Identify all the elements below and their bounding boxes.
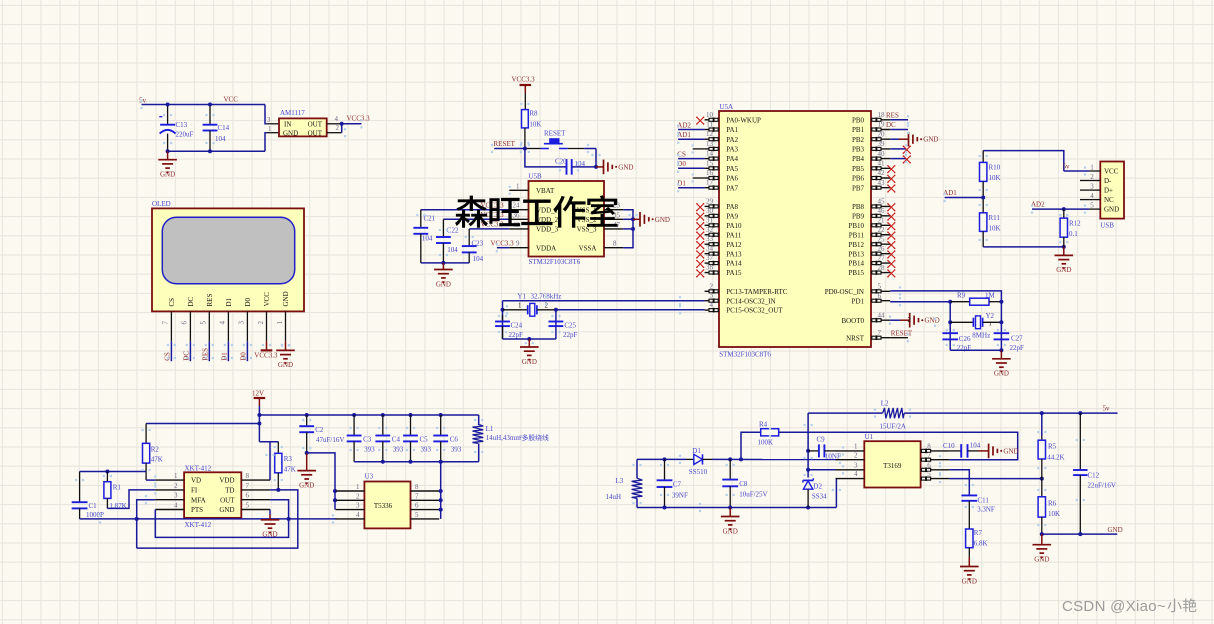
svg-text:VCC3.3: VCC3.3	[254, 352, 278, 360]
svg-text:PA5: PA5	[726, 165, 738, 173]
svg-text:GND: GND	[1104, 206, 1119, 214]
svg-text:CS: CS	[168, 298, 176, 307]
svg-text:5v: 5v	[1103, 404, 1111, 412]
svg-text:5v: 5v	[1063, 163, 1071, 171]
svg-text:GND: GND	[299, 481, 314, 489]
svg-text:PB14: PB14	[848, 260, 864, 268]
svg-text:41: 41	[878, 160, 886, 168]
svg-text:7: 7	[246, 482, 250, 490]
svg-text:C12: C12	[1088, 471, 1100, 479]
svg-text:104: 104	[970, 442, 981, 450]
svg-text:32: 32	[706, 226, 714, 234]
svg-text:6: 6	[927, 461, 931, 469]
svg-text:AD2: AD2	[677, 121, 691, 129]
svg-text:PB10: PB10	[848, 222, 864, 230]
svg-text:3: 3	[238, 321, 246, 325]
svg-text:NRST: NRST	[846, 334, 865, 342]
svg-text:10K: 10K	[989, 224, 1001, 232]
svg-text:RES: RES	[206, 294, 214, 307]
svg-text:1000P: 1000P	[86, 511, 104, 519]
svg-text:8: 8	[613, 240, 617, 248]
svg-text:R3: R3	[284, 455, 293, 463]
svg-text:40: 40	[878, 150, 886, 158]
svg-text:TD: TD	[225, 487, 234, 495]
svg-text:GND: GND	[1034, 556, 1049, 564]
svg-text:R12: R12	[1069, 220, 1081, 228]
svg-text:42: 42	[878, 169, 886, 177]
svg-text:RESET: RESET	[494, 140, 516, 148]
svg-text:USB: USB	[1100, 221, 1114, 229]
svg-text:43: 43	[878, 179, 886, 187]
svg-text:22: 22	[878, 226, 886, 234]
svg-text:AD2: AD2	[1031, 201, 1045, 209]
svg-text:VCC: VCC	[263, 292, 271, 307]
svg-text:2: 2	[710, 282, 714, 290]
svg-text:GND: GND	[1003, 447, 1018, 455]
svg-text:4: 4	[854, 470, 858, 478]
svg-text:2: 2	[257, 321, 265, 325]
svg-text:9: 9	[516, 240, 520, 248]
svg-text:DC: DC	[182, 351, 190, 361]
svg-text:C3: C3	[363, 435, 372, 443]
svg-text:CS: CS	[163, 352, 171, 361]
svg-text:24: 24	[513, 202, 521, 210]
svg-text:44: 44	[878, 311, 886, 319]
svg-text:PC15-OSC32_OUT: PC15-OSC32_OUT	[726, 307, 783, 315]
svg-text:D-: D-	[1104, 177, 1112, 185]
svg-text:PA1: PA1	[726, 126, 738, 134]
svg-text:C11: C11	[978, 496, 990, 504]
svg-text:GND: GND	[1108, 526, 1123, 534]
svg-text:AM1117: AM1117	[280, 109, 305, 117]
svg-text:C8: C8	[739, 480, 748, 488]
svg-text:OUT: OUT	[220, 496, 235, 504]
svg-text:2: 2	[1090, 173, 1094, 181]
svg-text:C7: C7	[673, 481, 682, 489]
svg-text:PB15: PB15	[848, 269, 864, 277]
svg-text:GND: GND	[994, 370, 1009, 378]
svg-text:Y1: Y1	[517, 293, 526, 301]
svg-text:8: 8	[246, 472, 250, 480]
svg-text:22pF: 22pF	[509, 331, 524, 339]
svg-text:GND: GND	[282, 291, 290, 306]
svg-text:44.2K: 44.2K	[1047, 453, 1064, 461]
svg-text:GND: GND	[923, 136, 938, 144]
svg-text:RESET: RESET	[544, 129, 566, 137]
svg-text:VD: VD	[191, 477, 201, 485]
svg-text:45: 45	[878, 198, 886, 206]
svg-text:10K: 10K	[529, 121, 541, 129]
svg-text:31: 31	[706, 216, 714, 224]
svg-text:PA7: PA7	[726, 184, 738, 192]
svg-text:R11: R11	[989, 214, 1001, 222]
svg-text:VCC: VCC	[1104, 168, 1119, 176]
svg-text:R1: R1	[113, 483, 122, 491]
svg-text:PA4: PA4	[726, 155, 738, 163]
svg-text:25: 25	[878, 235, 886, 243]
svg-text:22pF: 22pF	[1010, 344, 1025, 352]
svg-text:5: 5	[927, 470, 931, 478]
svg-text:U5B: U5B	[529, 173, 543, 181]
svg-text:VCC3.3: VCC3.3	[491, 239, 515, 247]
svg-text:R9: R9	[957, 292, 966, 300]
svg-text:L1: L1	[486, 425, 494, 433]
svg-text:28: 28	[878, 264, 886, 272]
svg-text:R4: R4	[759, 420, 768, 428]
svg-text:1: 1	[356, 483, 360, 491]
svg-text:C10: C10	[943, 442, 955, 450]
svg-text:OUT: OUT	[308, 120, 323, 128]
svg-text:PB7: PB7	[852, 184, 865, 192]
svg-text:1: 1	[854, 443, 858, 451]
svg-text:C9: C9	[817, 436, 826, 444]
svg-text:13: 13	[706, 140, 714, 148]
svg-text:D1: D1	[225, 297, 233, 306]
svg-text:39: 39	[878, 140, 886, 148]
svg-text:393: 393	[393, 446, 404, 454]
svg-text:PC13-TAMPER-RTC: PC13-TAMPER-RTC	[726, 288, 788, 296]
svg-text:46: 46	[878, 207, 886, 215]
svg-text:PA15: PA15	[726, 269, 742, 277]
svg-text:2: 2	[336, 124, 340, 132]
svg-text:R6: R6	[1048, 499, 1057, 507]
svg-text:VDD: VDD	[219, 477, 234, 485]
svg-text:37: 37	[706, 254, 714, 262]
svg-text:3: 3	[356, 502, 360, 510]
svg-text:3.3NF: 3.3NF	[977, 506, 995, 514]
svg-text:PD1: PD1	[852, 297, 865, 305]
svg-text:393: 393	[364, 446, 375, 454]
svg-text:MFA: MFA	[191, 496, 206, 504]
svg-text:BOOT0: BOOT0	[841, 317, 864, 325]
svg-text:1: 1	[518, 302, 522, 310]
svg-text:C26: C26	[959, 335, 971, 343]
svg-text:D0: D0	[239, 352, 247, 361]
svg-text:U5A: U5A	[719, 103, 733, 111]
svg-text:GND: GND	[278, 361, 293, 369]
svg-text:PA9: PA9	[726, 212, 738, 220]
svg-text:PB1: PB1	[852, 126, 865, 134]
svg-text:47uF/16V: 47uF/16V	[316, 436, 344, 444]
svg-text:VDDA: VDDA	[536, 244, 556, 252]
svg-text:OUT: OUT	[308, 129, 323, 137]
svg-text:C23: C23	[472, 239, 484, 247]
svg-text:1: 1	[1090, 163, 1094, 171]
svg-text:5: 5	[878, 283, 882, 291]
svg-text:38: 38	[706, 264, 714, 272]
svg-text:10uF/25V: 10uF/25V	[739, 491, 767, 499]
svg-text:D0: D0	[244, 297, 252, 306]
svg-text:22pF: 22pF	[563, 331, 578, 339]
svg-text:7: 7	[927, 451, 931, 459]
svg-text:RES: RES	[886, 111, 899, 119]
svg-text:12: 12	[706, 130, 714, 138]
svg-text:104: 104	[473, 255, 484, 263]
svg-text:C22: C22	[447, 227, 459, 235]
svg-text:PB11: PB11	[849, 231, 865, 239]
svg-text:GND: GND	[1056, 266, 1071, 274]
svg-text:PA3: PA3	[726, 146, 738, 154]
svg-text:6: 6	[181, 321, 189, 325]
svg-text:5: 5	[1090, 201, 1094, 209]
svg-text:104: 104	[447, 246, 458, 254]
svg-text:33: 33	[706, 235, 714, 243]
svg-text:XKT-412: XKT-412	[185, 464, 212, 472]
svg-text:393: 393	[451, 446, 462, 454]
svg-text:C4: C4	[392, 435, 401, 443]
svg-text:IN: IN	[284, 120, 291, 128]
svg-text:D2: D2	[813, 482, 822, 490]
svg-text:DC: DC	[187, 296, 195, 306]
svg-text:VCC3.3: VCC3.3	[347, 114, 371, 122]
svg-text:15: 15	[706, 159, 714, 167]
svg-text:104: 104	[215, 135, 226, 143]
svg-text:5v: 5v	[139, 97, 147, 105]
svg-text:1: 1	[268, 125, 272, 133]
svg-text:PA14: PA14	[726, 260, 742, 268]
svg-text:5: 5	[415, 511, 419, 519]
svg-text:PB12: PB12	[848, 241, 864, 249]
svg-text:R10: R10	[989, 164, 1001, 172]
svg-text:2: 2	[174, 482, 178, 490]
svg-text:220uF: 220uF	[176, 131, 194, 139]
svg-text:4: 4	[335, 115, 339, 123]
svg-text:104: 104	[422, 235, 433, 243]
svg-text:PA10: PA10	[726, 222, 742, 230]
svg-text:47K: 47K	[151, 456, 163, 464]
svg-text:PB2: PB2	[852, 136, 865, 144]
svg-text:PA2: PA2	[726, 136, 738, 144]
svg-text:C5: C5	[420, 435, 429, 443]
svg-text:19: 19	[878, 121, 886, 129]
svg-text:PB0: PB0	[852, 116, 865, 124]
svg-text:5: 5	[200, 321, 208, 325]
svg-text:VDD_3: VDD_3	[536, 226, 559, 234]
svg-text:16: 16	[706, 169, 714, 177]
svg-text:22uF/16V: 22uF/16V	[1088, 481, 1116, 489]
svg-text:XKT-412: XKT-412	[185, 521, 212, 529]
svg-text:3: 3	[854, 461, 858, 469]
svg-text:D1: D1	[220, 352, 228, 361]
svg-text:AD1: AD1	[677, 131, 691, 139]
svg-text:26: 26	[878, 245, 886, 253]
svg-text:4: 4	[356, 511, 360, 519]
svg-text:VCC3.3: VCC3.3	[512, 76, 536, 84]
svg-text:PA13: PA13	[726, 250, 742, 258]
svg-text:34: 34	[706, 245, 714, 253]
svg-text:30: 30	[706, 207, 714, 215]
svg-text:GND: GND	[618, 163, 633, 171]
svg-text:6: 6	[415, 502, 419, 510]
svg-text:6: 6	[878, 292, 882, 300]
svg-text:GND: GND	[283, 129, 298, 137]
svg-text:STM32F103C8T6: STM32F103C8T6	[529, 258, 581, 266]
svg-text:PA8: PA8	[726, 203, 738, 211]
svg-text:4: 4	[174, 502, 178, 510]
svg-text:3: 3	[174, 492, 178, 500]
svg-text:C24: C24	[511, 322, 523, 330]
svg-text:L2: L2	[881, 400, 889, 408]
svg-text:14: 14	[706, 150, 714, 158]
svg-text:27: 27	[878, 254, 886, 262]
svg-text:1M: 1M	[985, 291, 996, 299]
svg-text:STM32F103C8T6: STM32F103C8T6	[719, 351, 771, 359]
svg-text:C1: C1	[89, 502, 98, 510]
svg-text:0.1: 0.1	[1069, 230, 1078, 238]
svg-text:21: 21	[878, 217, 886, 225]
svg-text:1: 1	[989, 321, 992, 328]
svg-text:PA0-WKUP: PA0-WKUP	[726, 116, 761, 124]
svg-text:PB13: PB13	[848, 250, 864, 258]
svg-text:PB6: PB6	[852, 175, 865, 183]
svg-text:29: 29	[706, 197, 714, 205]
svg-text:L3: L3	[616, 477, 624, 485]
svg-text:U1: U1	[865, 433, 874, 441]
svg-text:8: 8	[415, 483, 419, 491]
svg-text:14uH: 14uH	[606, 493, 622, 501]
svg-text:D+: D+	[1104, 187, 1113, 195]
svg-text:GND: GND	[219, 506, 234, 514]
svg-text:3: 3	[710, 292, 714, 300]
svg-text:20: 20	[878, 130, 886, 138]
svg-text:1: 1	[174, 472, 178, 480]
svg-text:R8: R8	[529, 110, 538, 118]
svg-text:VBAT: VBAT	[536, 187, 555, 195]
svg-text:FI: FI	[191, 487, 198, 495]
svg-text:7: 7	[415, 492, 419, 500]
svg-text:C2: C2	[315, 426, 324, 434]
svg-text:R2: R2	[151, 445, 160, 453]
svg-text:4: 4	[219, 321, 227, 325]
svg-text:18: 18	[878, 111, 886, 119]
svg-text:R5: R5	[1048, 442, 1057, 450]
svg-text:R7: R7	[974, 529, 983, 537]
svg-text:GND: GND	[262, 531, 277, 539]
svg-text:GND: GND	[436, 280, 451, 288]
svg-text:47K: 47K	[284, 465, 296, 473]
svg-text:GND: GND	[160, 171, 175, 179]
svg-text:VCC: VCC	[224, 96, 239, 104]
svg-text:C27: C27	[1011, 335, 1023, 343]
svg-text:PA11: PA11	[726, 231, 742, 239]
svg-text:12V: 12V	[252, 389, 264, 397]
svg-text:10K: 10K	[1048, 510, 1060, 518]
svg-text:11: 11	[706, 121, 713, 129]
svg-text:GND: GND	[962, 577, 977, 585]
svg-text:4: 4	[1090, 192, 1094, 200]
svg-text:PTS: PTS	[191, 506, 203, 514]
svg-text:PC14-OSC32_IN: PC14-OSC32_IN	[726, 297, 775, 305]
svg-text:SS34: SS34	[812, 493, 827, 501]
svg-text:NC: NC	[1104, 196, 1114, 204]
svg-text:GND: GND	[723, 527, 738, 535]
svg-text:C13: C13	[176, 121, 188, 129]
svg-text:17: 17	[706, 179, 714, 187]
svg-text:8MHz: 8MHz	[972, 331, 990, 339]
svg-text:5: 5	[246, 502, 250, 510]
svg-text:T5336: T5336	[374, 502, 393, 510]
svg-text:8: 8	[927, 443, 931, 451]
svg-text:OLED: OLED	[152, 200, 171, 208]
svg-text:SS510: SS510	[689, 468, 708, 476]
svg-text:3: 3	[1090, 182, 1094, 190]
svg-text:10: 10	[706, 111, 714, 119]
svg-text:C6: C6	[450, 435, 459, 443]
svg-text:RESET: RESET	[891, 329, 913, 337]
svg-text:100K: 100K	[758, 439, 774, 447]
svg-text:39NF: 39NF	[672, 491, 688, 499]
svg-text:7: 7	[162, 321, 170, 325]
svg-text:PB8: PB8	[852, 203, 865, 211]
svg-text:²: ²	[520, 434, 522, 442]
svg-text:2: 2	[854, 451, 858, 459]
svg-text:2: 2	[356, 492, 360, 500]
svg-text:7: 7	[878, 329, 882, 337]
svg-text:10K: 10K	[989, 174, 1001, 182]
svg-text:14uH,43mm: 14uH,43mm	[486, 434, 522, 442]
svg-text:GND: GND	[522, 358, 537, 366]
svg-text:U3: U3	[365, 473, 374, 481]
svg-text:PB4: PB4	[852, 155, 865, 163]
svg-text:15UF/2A: 15UF/2A	[880, 422, 906, 430]
svg-text:D1: D1	[692, 447, 701, 455]
svg-text:GND: GND	[925, 317, 940, 325]
svg-text:DC: DC	[886, 121, 896, 129]
svg-text:4: 4	[710, 301, 714, 309]
svg-text:PB9: PB9	[852, 212, 865, 220]
svg-text:Y2: Y2	[986, 312, 995, 320]
svg-text:C25: C25	[564, 322, 576, 330]
svg-text:T3169: T3169	[883, 462, 902, 470]
svg-text:PB5: PB5	[852, 165, 865, 173]
svg-text:PA6: PA6	[726, 175, 738, 183]
svg-text:1: 1	[516, 182, 520, 190]
svg-text:C14: C14	[218, 124, 230, 132]
svg-text:VSSA: VSSA	[579, 244, 597, 252]
svg-text:2: 2	[908, 316, 912, 324]
svg-text:393: 393	[421, 446, 432, 454]
svg-text:PD0-OSC_IN: PD0-OSC_IN	[825, 288, 864, 296]
svg-text:3: 3	[267, 116, 271, 124]
svg-text:6: 6	[246, 492, 250, 500]
svg-text:PB3: PB3	[852, 146, 865, 154]
svg-text:1: 1	[276, 321, 284, 325]
svg-text:6.8K: 6.8K	[974, 540, 988, 548]
svg-text:PA12: PA12	[726, 241, 742, 249]
svg-text:GND: GND	[655, 216, 670, 224]
svg-text:2: 2	[545, 302, 549, 310]
svg-text:CSDN @Xiao~: CSDN @Xiao~	[1062, 598, 1166, 615]
